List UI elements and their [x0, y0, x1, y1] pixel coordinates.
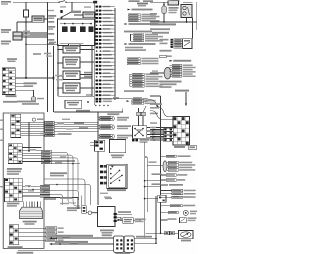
K6 label [181, 240, 191, 242]
coil T1 (round component) [31, 97, 36, 102]
bottom rows y100-105 [127, 100, 130, 102]
wire from relay K1 [44, 18, 48, 20]
wire y37 [22, 36, 48, 38]
K6 internal arrow [183, 233, 189, 237]
wire to relay K2 [74, 14, 83, 16]
row y212.4 with round component [161, 211, 169, 213]
row y156.3 fuel pump [161, 155, 167, 157]
double wire from G1 y77-79 [15, 76, 53, 78]
circuit row y60.8 [170, 60, 173, 62]
ignition switch box [107, 164, 127, 188]
wire y33 [22, 32, 48, 34]
fuse box inner partition [60, 43, 84, 45]
bundle brace rows y162-170 [163, 161, 167, 172]
fuse box FB1 outline [58, 19, 96, 46]
wire horizontal y22 [150, 21, 197, 23]
fuse list rows 1 [128, 14, 140, 16]
label stack C [40, 185, 50, 187]
bus right vertical wire x115 [114, 8, 116, 100]
G6 label below [174, 146, 185, 148]
wire bottom long y238 [52, 237, 114, 239]
connector C2 (2-pin) [13, 36, 22, 40]
MAF sensor box [98, 207, 116, 227]
relay K6 (bottom right) [179, 231, 194, 239]
wires relays to bus band [80, 49, 94, 51]
harness top tie [145, 156, 148, 158]
multi-pin connector pins [23, 202, 25, 208]
circuit row y24 [125, 23, 128, 25]
wire curving to connector grid with arrowhead [148, 99, 157, 105]
wires into ignition pins [68, 200, 76, 203]
speed sensor connector note [7, 168, 22, 170]
ac compressor signal label [50, 172, 67, 174]
wire CP right y238.6 [134, 238, 156, 240]
junction dot y244 [59, 243, 61, 245]
wire bottom y96.2 [58, 95, 94, 97]
label above y238 [55, 235, 93, 237]
relay K3 (defogger relay) [181, 5, 192, 18]
G4 dark cells [5, 179, 8, 181]
extra bus pair row y101.4 [96, 100, 99, 102]
MAF pins right [114, 213, 117, 215]
junction dots y22 [163, 21, 165, 23]
wire y199 [44, 198, 56, 200]
A/T trans kit label [175, 90, 189, 92]
wire y163.6 [44, 163, 80, 165]
fuse box internal bus wire [60, 23, 92, 25]
main bus vertical wire x94.3 [93, 2, 95, 105]
small box right of G6 label [189, 145, 197, 149]
branch y163.8 with label [147, 165, 163, 167]
connector 84 label [17, 252, 34, 254]
bus pin-pair rows with wire labels [96, 6, 99, 8]
relay B5 (small) [65, 100, 82, 108]
CP label below [115, 253, 130, 254]
switch label text [1, 41, 11, 43]
wire divider y112 (upper box bottom edge) [54, 111, 123, 113]
row y175 [152, 173, 162, 175]
wire vertical x17 [16, 22, 18, 32]
circuit row y9.5 [128, 9, 131, 11]
grid G5 (rear wiper switch) [9, 225, 19, 245]
fuse F2 (cartridge) [162, 6, 167, 13]
fuse block grid G1 [2, 68, 15, 95]
connector body (trapezoid) [20, 207, 43, 218]
aux fuse label [137, 3, 148, 5]
wire vertical x156 [155, 196, 157, 243]
bottom texts of section [3, 101, 17, 103]
wire y83.4 with fusible link label [15, 82, 37, 84]
wire vertical drop x26 [25, 2, 27, 77]
label stack A [45, 121, 55, 123]
wire vertical x53.5 [53, 46, 55, 112]
branch y180.7 [144, 180, 146, 182]
label right of junction box [135, 218, 146, 220]
relay cell 4 [89, 26, 94, 32]
bus top terminal [93, 1, 97, 4]
wire W/R label y74.5 [84, 72, 92, 74]
small arrow symbols [118, 219, 121, 221]
row y185 transmission [152, 183, 161, 185]
defroster wire label left [150, 13, 157, 15]
G6 dark cells [174, 117, 177, 120]
MAF label [100, 230, 114, 232]
connector C1 (2-pin) [13, 32, 22, 36]
sparse dot row [95, 105, 96, 106]
fusible link rows [160, 39, 169, 41]
collector vertical x98 [97, 112, 99, 141]
ignition sw label below G1 [6, 95, 17, 97]
arrowhead y238 [49, 237, 52, 239]
wire MAF pin1 [117, 213, 132, 215]
descender wires [67, 161, 69, 200]
label above dash box [17, 101, 36, 103]
narrow connector CN1 [82, 206, 87, 213]
junction dots on internal bus [64, 23, 66, 25]
wires K5 to right grid [147, 127, 176, 129]
grid G4 (speed sensor) [4, 178, 22, 202]
junction dot x53.5 [53, 77, 55, 79]
page right edge line [196, 2, 198, 30]
label above right grid [150, 103, 162, 105]
connector label [23, 221, 37, 223]
wire MAF pin2 [117, 216, 121, 218]
inline label row y134.5 [41, 133, 47, 135]
pair rows 1 (door lock) [98, 116, 100, 118]
A/T trans kit arrow [185, 92, 187, 103]
relay B2 (heater relay) [63, 57, 80, 68]
relay B4 (condenser relay) [63, 83, 80, 93]
CP pins [116, 239, 118, 241]
connector grid G6 [173, 117, 190, 146]
relay B1 (fuel pump relay) [63, 46, 80, 53]
wire vertical x29 inside box [28, 122, 30, 151]
stub into vertical [150, 95, 161, 97]
wires with arrows into entry boxes [150, 129, 164, 131]
wire branch x72 vertical [71, 2, 73, 12]
right label col rows y74-87 [129, 74, 131, 87]
power relay box label [7, 58, 17, 60]
left connector pins small [95, 140, 105, 151]
wire vertical x192.5 [192, 18, 194, 39]
sensor S2 (round) [88, 211, 91, 214]
header text top [129, 0, 140, 2]
labels right of vertical [33, 53, 41, 55]
pair rows 3 [98, 134, 100, 136]
wire y44.2 feed to stack rail [26, 43, 58, 45]
wire W/R label y78 [84, 76, 92, 78]
junction dots at x53.5 crossing [53, 76, 55, 78]
ignition switch contacts [110, 168, 112, 170]
fuse rating text [171, 0, 180, 2]
rear window defogger switch label [1, 29, 11, 31]
fuse box label [69, 44, 81, 48]
upper box right corner [122, 109, 124, 113]
relay K4 bottom connector [160, 55, 167, 58]
wire y234 long [145, 232, 160, 234]
wire into connector top [81, 196, 83, 206]
connector pair label above [102, 234, 112, 236]
ignition switch label [107, 189, 126, 191]
text rows y28-35 [150, 28, 170, 30]
wires G4 to label stack C [22, 185, 40, 187]
harness double wire vertical B [146, 157, 148, 212]
G6 entry pin boxes [164, 128, 174, 131]
relay cell 3 [80, 26, 86, 32]
wire top right y2.2 [150, 1, 174, 3]
circuit row y31.5 [124, 31, 152, 33]
wire from K3 down [186, 18, 188, 23]
wire vertical x58 (stack rail) [57, 44, 59, 96]
bottom rule wire [18, 250, 135, 252]
blower motor label [111, 155, 124, 157]
connector CP2 [124, 236, 134, 252]
label below divider [107, 113, 119, 115]
inline switch on top wire [59, 1, 65, 3]
fuse box left pin labels [48, 15, 56, 17]
K5 internals [135, 129, 143, 136]
wire into bundle [150, 72, 164, 74]
wires G3 to label stack B [22, 147, 41, 149]
circuit row y44 [125, 43, 128, 45]
G5 dark cells [10, 226, 13, 228]
junction dot near B5 [87, 101, 89, 103]
wire label sprinkles [23, 31, 30, 32]
wire to coil circle [15, 89, 33, 91]
component on branch x72 [60, 10, 62, 13]
relay K1 (power relay) [32, 16, 44, 22]
fuse F1 [23, 10, 28, 17]
K5 feed boxes above [137, 112, 141, 116]
relay cell 2 [70, 26, 76, 32]
wire into K6 [174, 232, 178, 234]
wire y184.5 [44, 185, 91, 206]
wire sensor to vertical [92, 212, 98, 214]
junction dot [25, 21, 27, 23]
connector grid G2 [11, 114, 21, 137]
wire horizontal y22 [17, 21, 32, 23]
wire left vertical bus x47.5 [47, 2, 49, 112]
text rows y81-89 [160, 81, 182, 83]
text row y50 [160, 50, 172, 52]
row y205.6 main relay [161, 205, 171, 207]
+12 label [105, 198, 112, 200]
dash harness box outline [3, 113, 44, 248]
relay K4 [183, 39, 192, 49]
label stack B [41, 150, 51, 152]
wires going right from stack A [54, 121, 98, 123]
blower motor box [109, 140, 125, 153]
AC thermo switch label [67, 207, 81, 209]
G1 dark cells [3, 69, 6, 71]
relay cell 1 [62, 26, 68, 32]
wire color labels mid [74, 123, 84, 125]
brace for fuse rows 2 [130, 34, 132, 41]
switch S1 blade [61, 12, 72, 18]
wire to sensor circle [86, 212, 88, 214]
right label col rows y58-64 [127, 58, 140, 60]
junction dots on G4 wires [28, 186, 30, 188]
arrowhead y244 [49, 243, 52, 245]
wires G5 to label stack D [19, 227, 46, 229]
left texts beside grid wires [150, 122, 157, 124]
earth label row [150, 23, 176, 25]
row y199 label [179, 196, 191, 198]
wire MAF pin3 [117, 220, 140, 222]
wire vertical x164 [163, 2, 165, 22]
rear wiper switch label [8, 246, 23, 248]
A-pillar connector label boxes [133, 98, 142, 100]
dot above F2 [163, 4, 165, 6]
rows y190-197 [161, 190, 172, 192]
right section vertical wire x160.5 [160, 96, 162, 234]
label stack D [46, 227, 57, 230]
label A/T mode switch text [1, 1, 11, 3]
wires into left connector [90, 141, 95, 143]
wire top horizontal bus [13, 1, 59, 3]
G2 dark cells [11, 115, 14, 117]
wire y179 with curve [44, 179, 85, 205]
in-line fuse holder [168, 1, 179, 5]
fuse list rows 2 [133, 34, 144, 36]
left margin tiny labels [0, 120, 3, 121]
small junction box [123, 218, 133, 224]
engine harness label [76, 110, 90, 112]
circuit row y91 [124, 90, 144, 92]
left wire labels y197-203 [60, 197, 72, 199]
pair rows 2 (trans position) [98, 125, 100, 127]
wires from stack B going right [51, 152, 68, 161]
harness bundle grommet [164, 67, 171, 79]
junction dot on x26 wire [25, 77, 27, 79]
grid G3 (lower) [8, 144, 22, 164]
inline label boxes on wire y233.8 [165, 231, 170, 234]
harness double wire vertical A [144, 142, 146, 238]
wire vertical x98 (center drop) [97, 112, 99, 205]
row y180 [161, 179, 167, 181]
row y220 vehicle speed sensor [161, 219, 168, 221]
wire y35 [22, 34, 48, 36]
branch y186.6 [144, 186, 146, 188]
K5 label [140, 139, 150, 141]
wires curving into grid top [158, 107, 174, 117]
wire y161 [44, 160, 75, 162]
wire y86.2 with label [15, 85, 33, 87]
rear wiper motor label [7, 203, 20, 205]
wire bus to A-pillar label boxes [101, 98, 133, 100]
inline connector box on vertical x160.5 [145, 198, 158, 200]
connector CP1 [114, 236, 124, 252]
bundle fan-out rows [170, 64, 173, 66]
wire CP right y243 [134, 242, 156, 244]
defroster wire label right [169, 7, 179, 9]
label above y244 [55, 241, 88, 243]
main relay label [71, 11, 81, 13]
rail taps to relays [57, 49, 59, 51]
K5 pin row below [132, 139, 135, 142]
relay B3 (wiper relay) [63, 71, 80, 80]
ignition switch pins [100, 165, 103, 168]
relay K5 (heater relay) [133, 126, 147, 138]
wire y197.5 into x78 drop [44, 197, 78, 199]
G3 dark cells [9, 144, 12, 146]
component V1 (small sensor) [32, 118, 35, 121]
wire vertical x92 [91, 46, 93, 96]
relay K2 (main relay) [83, 12, 95, 18]
wires G2 to label stack [21, 121, 45, 123]
wire bottom long y244 [52, 243, 114, 245]
circuit rows y47.5 y50 [125, 47, 143, 49]
